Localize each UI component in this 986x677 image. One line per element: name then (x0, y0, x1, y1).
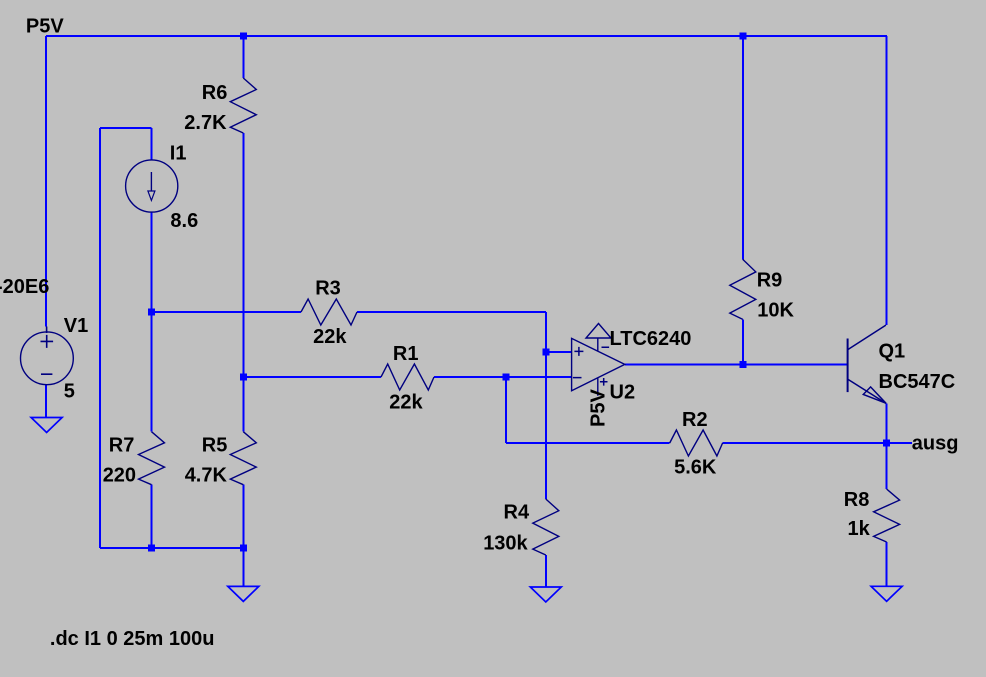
svg-text:R3: R3 (315, 278, 341, 300)
svg-text:R2: R2 (682, 409, 708, 431)
svg-text:BC547C: BC547C (879, 371, 956, 393)
svg-text:ausg: ausg (912, 433, 959, 455)
svg-text:22k: 22k (389, 392, 423, 414)
svg-text:R7: R7 (109, 435, 135, 457)
svg-text:R1: R1 (393, 343, 419, 365)
svg-text:-20E6: -20E6 (0, 276, 49, 298)
svg-text:R6: R6 (202, 82, 228, 104)
svg-text:.dc I1 0 25m 100u: .dc I1 0 25m 100u (50, 628, 215, 650)
svg-text:5: 5 (64, 381, 75, 403)
svg-text:220: 220 (103, 465, 136, 487)
svg-text:R9: R9 (757, 270, 783, 292)
svg-text:P5V: P5V (588, 389, 610, 427)
svg-text:5.6K: 5.6K (674, 457, 717, 479)
svg-text:2.7K: 2.7K (184, 112, 227, 134)
svg-text:22k: 22k (313, 326, 347, 348)
svg-text:Q1: Q1 (879, 341, 906, 363)
svg-text:4.7K: 4.7K (185, 465, 228, 487)
svg-text:LTC6240: LTC6240 (610, 328, 692, 350)
svg-text:R5: R5 (202, 435, 228, 457)
svg-text:R8: R8 (844, 489, 870, 511)
svg-text:R4: R4 (504, 501, 530, 523)
svg-text:V1: V1 (64, 315, 88, 337)
svg-text:8.6: 8.6 (170, 210, 198, 232)
svg-text:I1: I1 (170, 143, 187, 165)
svg-text:10K: 10K (757, 300, 794, 322)
svg-text:1k: 1k (848, 518, 871, 540)
svg-text:P5V: P5V (26, 16, 64, 38)
svg-text:130k: 130k (483, 533, 528, 555)
svg-text:U2: U2 (610, 382, 636, 404)
